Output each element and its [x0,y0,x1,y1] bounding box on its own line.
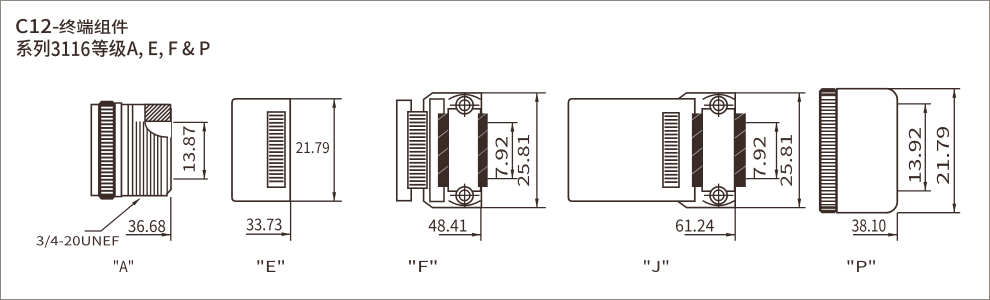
connector A front fillet arc [145,122,171,138]
dim 13.87 dimension line [202,122,206,179]
connector J gasket block left [692,112,702,187]
dim 38.10 dimension line [853,233,897,237]
label P [847,260,874,272]
connector J screw bottom [704,184,733,208]
dim 36.68 extension line [170,197,172,241]
dim 38.10 value text [852,219,885,231]
connector P body [837,89,897,213]
connector F screw boss bottom [449,201,481,206]
dim 33.73 value text [247,218,282,230]
dim 13.92 dimension line [923,104,927,191]
connector A thread lines [136,122,161,196]
label A [114,260,133,272]
connector F knurl strip [408,112,427,188]
dim 25.81(J) value text [781,135,793,186]
title line 2: series 3116 grades [16,39,209,58]
dim 25.81(F) extension line top [481,92,545,94]
dim 7.92(J) dimension line [775,123,779,179]
dim 21.79(E) dimension line [332,99,336,201]
dim 7.92(J) value text [754,137,766,178]
dim 13.92 value text [909,128,921,182]
connector J screw boss top [703,95,735,100]
dim 61.24 extension line [734,208,736,241]
dim 21.79(P) extension line bottom [897,212,960,214]
dim 25.81(F) extension line bottom [481,207,545,209]
dim 48.41 extension line [480,208,482,241]
connector F screw top [450,93,479,117]
dim 38.10 extension line [896,213,898,241]
dim 21.79(P) dimension line [952,89,956,213]
connector A hatched section block [133,105,182,122]
connector A body section line 1 [127,105,129,196]
dim 48.41 value text [429,219,467,231]
dim 7.92(F) dimension line [511,123,515,179]
dim 61.24 value text [676,219,714,231]
dim 25.81(F) value text [518,135,530,186]
dim 21.79(E) extension line bottom [290,200,342,202]
dim 33.73 dimension line [246,232,291,236]
connector J screw boss bottom [703,201,735,206]
dim 13.92 extension line bottom [897,190,931,192]
thread callout text 3/4-20UNEF [36,235,119,247]
connector A rear flange strip [91,105,99,196]
connector F flange plate [424,93,482,208]
connector J screw top [704,93,733,117]
dim 36.68 value text [128,220,165,232]
dim 25.81(J) dimension line [797,93,801,208]
dim 7.92(F) extension line bottom [488,178,518,180]
dim 21.79(E) extension line top [290,98,342,100]
dim 21.79(E) value text [296,142,329,153]
connector J flange plate [678,93,736,208]
connector E body [232,99,290,201]
connector J gasket block right [735,112,746,187]
dim 33.73 extension line [290,201,292,241]
connector A body shell [122,105,172,196]
dim 25.81(F) dimension line [535,93,539,208]
connector F gasket block left [438,112,448,187]
connector A coupling nut (knurled ring) [99,101,115,199]
dim 61.24 dimension line [685,233,736,237]
connector P knurl ring [820,89,837,213]
label E [257,260,284,272]
connector F screw boss top [449,95,481,100]
dim 48.41 dimension line [439,233,481,237]
dim 25.81(J) extension line bottom [735,207,805,209]
connector A body section line 2 [132,105,134,196]
connector F screw bottom [450,184,479,208]
dim 13.87 value text [183,126,195,171]
connector F mating face [448,109,480,191]
connector E knurl strip [268,112,285,187]
label J [644,260,668,272]
dim 13.92 extension line top [897,103,931,105]
title line 1: C12-terminal assembly [16,19,128,34]
thread callout leader line [85,198,141,231]
dim 21.79(P) value text [937,127,949,184]
connector A nut smooth rim [115,103,122,197]
connector J rear shell body [568,99,694,201]
label F [409,260,437,272]
dim 13.87 extension line top [173,121,208,123]
dim 21.79(P) extension line top [888,88,960,90]
connector A inner rim line [166,106,168,195]
dim 7.92(F) extension line top [488,122,518,124]
connector F gasket block right [478,112,488,187]
dim 7.92(J) extension line bottom [746,178,780,180]
connector F rear plate [397,100,411,200]
connector J mating face [702,109,734,191]
dim 7.92(F) value text [496,137,508,178]
dim 25.81(J) extension line top [735,92,805,94]
connector F neck [430,99,444,202]
dim 7.92(J) extension line top [746,122,780,124]
dim 13.87 extension line bottom [173,178,208,180]
connector J knurl strip [663,113,679,187]
dim 36.68 dimension line [126,233,171,237]
